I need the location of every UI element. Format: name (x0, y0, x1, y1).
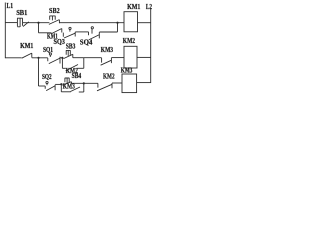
pushbutton SB4 (NO, row4 top path) (62, 78, 71, 85)
node D junction dot parallel box row3 (61, 57, 63, 59)
wire rung1 mid (23, 22, 49, 24)
node E junction dot parallel box row4 (60, 83, 62, 85)
svg-text:KM3: KM3 (63, 82, 75, 90)
wire KM3 coil to L2 (137, 82, 151, 84)
pushbutton SB3 (NO, row3 top path) (64, 50, 73, 58)
coil KM1 (124, 12, 138, 32)
svg-text:SQ1: SQ1 (43, 46, 53, 54)
node C junction dot row3/row4 (37, 57, 39, 59)
contact KM1 (NO, row3) (22, 53, 32, 58)
svg-text:KM3: KM3 (101, 46, 114, 54)
limit switch SQ3 (row2) (63, 30, 75, 38)
wire row2 mid (75, 31, 88, 33)
contact KM3 (NC interlock, row3) (101, 58, 112, 66)
wire rung1 right (59, 22, 124, 24)
contact KM3 (NO self-hold, row4 bottom path) (71, 87, 81, 92)
wire parallel box row4 right vertical (83, 83, 85, 92)
limit switch SQ1 (row3) (48, 55, 60, 64)
contact KM2 (NC interlock, row4) (97, 83, 112, 91)
svg-text:SB2: SB2 (49, 6, 60, 15)
limit switch SQ4 (row2) (89, 29, 100, 40)
wire row3 to coil KM2 (112, 57, 125, 59)
wire row3 left (5, 57, 21, 59)
wire row4 elbow (39, 85, 46, 87)
contact KM2 (NO self-hold, row3 bottom path) (66, 65, 78, 71)
svg-text:KM2: KM2 (103, 73, 115, 81)
wire KM2 coil to L2 (137, 56, 151, 58)
node L2 (right supply rail) (150, 9, 152, 83)
svg-text:SQ4: SQ4 (80, 38, 93, 46)
wire parallel box row3 bottom left (62, 67, 65, 69)
wire row2 rise to node B (117, 23, 119, 32)
svg-text:L1: L1 (7, 1, 14, 10)
svg-text:SB4: SB4 (72, 72, 82, 80)
wire row4 after SQ2 (55, 83, 61, 85)
node B junction dot rung1/coil branch (116, 22, 118, 24)
svg-text:KM2: KM2 (123, 37, 136, 45)
node L1 (left supply rail) (4, 3, 6, 59)
wire row3 after SQ1 (60, 57, 62, 59)
pushbutton SB2 (NO start button) (49, 16, 60, 25)
svg-text:SQ3: SQ3 (54, 38, 66, 46)
wire parallel box row3 left vertical (61, 58, 63, 69)
wire parallel box row4 bottom left (61, 91, 71, 93)
wire row2 drop from node A (38, 23, 40, 33)
wire row3 top path (73, 57, 84, 59)
wire rung1 left (5, 22, 17, 24)
wire parallel box row3 right vertical (83, 58, 85, 69)
wire row2 right (99, 31, 117, 33)
wire row3 to KM3 interlock (84, 57, 102, 59)
wire KM1 coil to L2 (138, 22, 151, 24)
svg-text:SB1: SB1 (16, 8, 27, 17)
coil KM3 (122, 74, 137, 93)
wire drop row3 to row4 (38, 58, 40, 86)
svg-text:KM3: KM3 (121, 66, 133, 74)
wire parallel box row4 bottom right (79, 91, 84, 93)
wire row4 top path (72, 82, 98, 84)
svg-text:L2: L2 (146, 2, 152, 11)
wire row4 to coil KM3 (112, 82, 122, 84)
coil KM2 (124, 46, 137, 68)
node A junction dot rung1/row2 (37, 22, 39, 24)
wire parallel box row3 bottom right (77, 67, 84, 69)
svg-text:KM1: KM1 (127, 2, 140, 11)
wire row2 left (39, 32, 52, 34)
svg-text:SB3: SB3 (66, 42, 76, 50)
svg-text:KM1: KM1 (20, 42, 34, 50)
pushbutton SB1 (NC stop button) (17, 18, 29, 27)
limit switch SQ2 (row4) (45, 84, 55, 91)
contact KM1 (NO self-hold, row2) (52, 29, 62, 34)
wire row3 to node C (32, 57, 48, 59)
node F junction dot parallel box row4 right (83, 82, 85, 84)
svg-text:SQ2: SQ2 (42, 73, 52, 81)
wire parallel box row4 left vertical (60, 84, 62, 92)
